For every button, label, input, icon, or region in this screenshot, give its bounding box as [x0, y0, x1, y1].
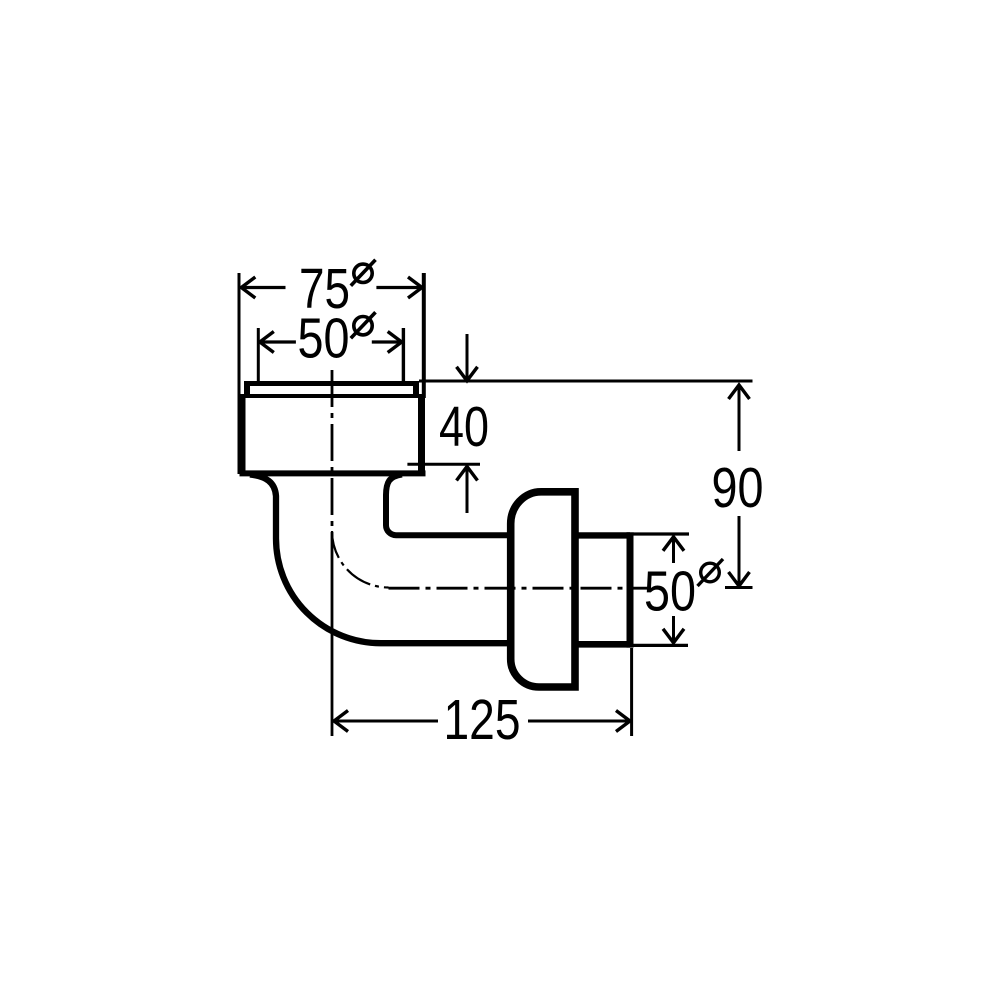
arrow 90 up	[729, 385, 750, 399]
socket box right edge	[418, 394, 425, 476]
hub bead on horizontal pipe	[511, 492, 575, 687]
top face reference line to 90 dimension	[419, 380, 753, 383]
svg-text:125: 125	[444, 688, 521, 751]
centerline vertical (dash-dot)	[331, 370, 334, 540]
diameter symbol for 75	[354, 264, 372, 282]
extension line 50 right-bottom of pipe end	[630, 644, 688, 647]
extension line 50 right-top of pipe end	[633, 532, 689, 535]
elbow outer wall with fillet and outer bend arc to bottom line	[250, 475, 507, 644]
dimension line 75	[241, 286, 422, 289]
socket box top line	[240, 394, 426, 398]
arrow 125 left	[334, 711, 348, 732]
pipe centerline reference tick for 90 dimension	[725, 586, 753, 589]
arrow 40 up	[457, 467, 478, 481]
centerline horizontal (dash-dot)	[389, 587, 649, 590]
socket flange right edge	[413, 381, 419, 397]
svg-text:50: 50	[298, 307, 350, 370]
pipe bottom line right of hub	[572, 641, 631, 648]
extension line 75 left	[238, 273, 241, 474]
socket flange left edge	[244, 381, 250, 397]
socket depth tick line for 40 dimension	[407, 463, 480, 466]
extension line 50 left	[257, 328, 260, 384]
arrow 50 left	[260, 332, 274, 353]
arrow 50R up	[663, 537, 684, 551]
arrow 40 down	[457, 367, 478, 381]
arrow 75 right	[408, 277, 422, 298]
centerline bend arc (dash-dot)	[332, 531, 389, 588]
svg-text:50: 50	[644, 560, 696, 623]
socket flange top line	[244, 381, 419, 386]
arrow 125 right	[616, 711, 630, 732]
elbow inner wall with fillet and inner corner to pipe top line	[386, 475, 508, 536]
dimension line 40 upper arrow stem	[466, 334, 469, 380]
arrow 50R down	[663, 629, 684, 643]
socket box left edge	[240, 394, 246, 476]
socket box bottom line	[240, 470, 426, 476]
dimension line 40 lower arrow stem	[466, 468, 469, 514]
diameter symbol for 50 right	[701, 563, 720, 582]
dimension line 125	[334, 720, 630, 723]
svg-text:90: 90	[712, 456, 764, 519]
diameter symbol for 50	[354, 317, 372, 335]
extension line 50 right	[402, 328, 405, 384]
dimension line 50 right	[672, 538, 675, 643]
dimension line 50	[260, 340, 402, 343]
pipe open end edge	[627, 532, 634, 647]
svg-text:40: 40	[439, 395, 489, 458]
arrow 50 right	[388, 332, 402, 353]
centerline vertical solid extension to 125 dimension	[331, 540, 334, 736]
dimension line 90	[738, 386, 741, 585]
pipe top line right of hub	[572, 532, 631, 538]
extension line 75 right	[422, 273, 426, 394]
extension line 125 right	[630, 648, 633, 736]
arrow 75 left	[241, 277, 255, 298]
arrow 90 down	[729, 572, 750, 586]
